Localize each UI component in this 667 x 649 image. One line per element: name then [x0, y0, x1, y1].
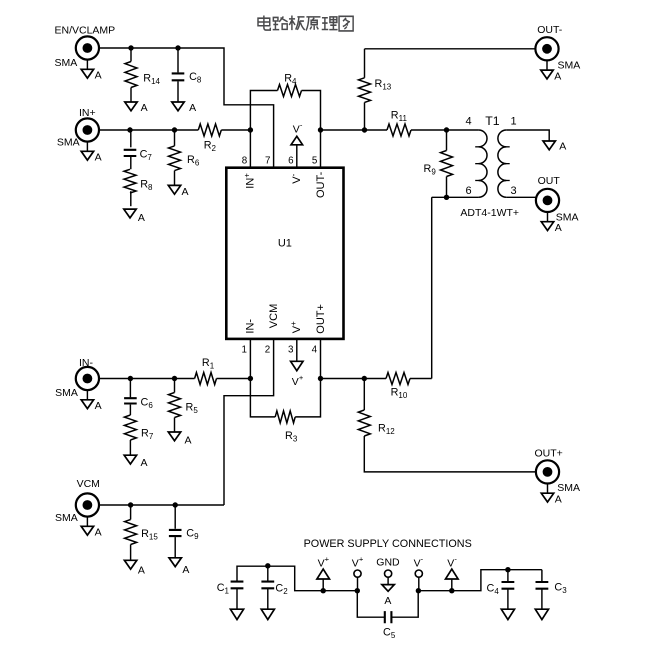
svg-text:IN-: IN- — [245, 319, 257, 334]
svg-text:A: A — [182, 564, 189, 576]
svg-text:ADT4-1WT+: ADT4-1WT+ — [460, 207, 519, 219]
svg-text:A: A — [138, 212, 145, 224]
svg-text:SMA: SMA — [57, 136, 80, 148]
svg-text:A: A — [95, 70, 102, 82]
svg-text:A: A — [95, 152, 102, 164]
svg-text:EN/VCLAMP: EN/VCLAMP — [55, 24, 116, 36]
svg-text:IN-: IN- — [79, 357, 94, 369]
svg-text:1: 1 — [510, 116, 516, 128]
svg-text:4: 4 — [465, 116, 471, 128]
svg-text:A: A — [555, 494, 562, 506]
svg-text:OUT+: OUT+ — [535, 447, 563, 459]
svg-text:OUT-: OUT- — [537, 24, 563, 36]
svg-text:A: A — [384, 595, 391, 607]
svg-text:A: A — [554, 70, 561, 82]
svg-text:A: A — [182, 186, 189, 198]
svg-text:SMA: SMA — [55, 387, 78, 399]
svg-text:POWER SUPPLY CONNECTIONS: POWER SUPPLY CONNECTIONS — [304, 538, 472, 550]
svg-text:A: A — [559, 141, 566, 153]
svg-text:SMA: SMA — [557, 482, 580, 494]
svg-text:A: A — [185, 434, 192, 446]
svg-text:2: 2 — [265, 345, 270, 356]
svg-text:A: A — [555, 222, 562, 234]
svg-text:5: 5 — [312, 155, 318, 166]
svg-text:6: 6 — [288, 155, 294, 166]
svg-text:SMA: SMA — [55, 512, 78, 524]
svg-text:4: 4 — [312, 345, 318, 356]
svg-text:3: 3 — [288, 345, 294, 356]
svg-text:SMA: SMA — [556, 211, 579, 223]
svg-text:A: A — [189, 102, 196, 114]
svg-text:A: A — [141, 457, 148, 469]
svg-text:8: 8 — [242, 155, 248, 166]
svg-text:A: A — [141, 102, 148, 114]
svg-text:VCM: VCM — [268, 304, 280, 328]
svg-text:OUT: OUT — [538, 175, 561, 187]
svg-text:1: 1 — [242, 345, 247, 356]
svg-text:A: A — [95, 400, 102, 412]
svg-text:A: A — [138, 564, 145, 576]
svg-text:6: 6 — [465, 185, 471, 197]
svg-text:T1: T1 — [485, 114, 500, 128]
svg-text:SMA: SMA — [558, 60, 581, 72]
svg-text:A: A — [95, 527, 102, 539]
svg-text:OUT-: OUT- — [315, 171, 327, 198]
svg-text:IN+: IN+ — [79, 107, 96, 119]
svg-text:GND: GND — [376, 556, 400, 568]
svg-text:3: 3 — [510, 185, 516, 197]
svg-text:SMA: SMA — [55, 57, 78, 69]
svg-text:7: 7 — [265, 155, 270, 166]
svg-text:VCM: VCM — [77, 478, 100, 490]
svg-text:U1: U1 — [278, 237, 292, 249]
svg-text:OUT+: OUT+ — [315, 304, 327, 334]
